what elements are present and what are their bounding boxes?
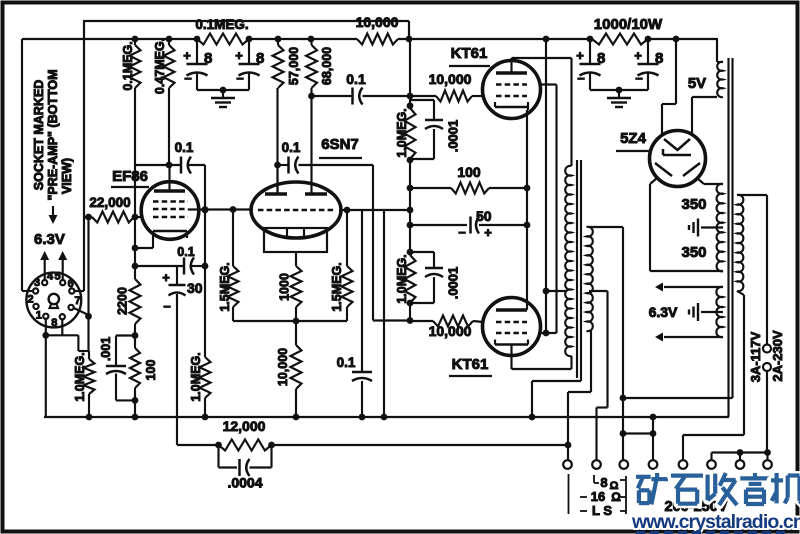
svg-text:16: 16 xyxy=(591,489,605,504)
junction dots top bus xyxy=(132,36,680,43)
svg-text:−: − xyxy=(236,71,244,86)
label KT61 (upper) xyxy=(449,45,490,66)
svg-text:3: 3 xyxy=(34,277,40,289)
wire line A down to socket pin6 xyxy=(74,217,84,291)
resistor 100 xyxy=(410,164,527,194)
svg-text:1.0MEG.: 1.0MEG. xyxy=(73,352,87,401)
wire 5Z4 filament right xyxy=(692,97,717,135)
label 200-250V xyxy=(665,499,728,515)
ground (filter right) xyxy=(607,90,631,107)
wire EF86 anode node y=165 xyxy=(135,162,205,169)
svg-text:4: 4 xyxy=(47,271,54,283)
label 350 (upper) xyxy=(681,196,706,213)
svg-text:1.0MEG.: 1.0MEG. xyxy=(189,352,203,401)
wire mains terminal harness xyxy=(712,449,771,460)
svg-text:0.47MEG.: 0.47MEG. xyxy=(153,38,167,94)
wire cathode bypass node xyxy=(132,248,209,269)
label 3A-117V xyxy=(748,331,763,382)
wire 6SN7 grid right xyxy=(339,207,413,214)
svg-text:100: 100 xyxy=(457,164,481,180)
power transformer core xyxy=(623,58,733,417)
output and mains terminals xyxy=(563,460,772,469)
svg-text:350: 350 xyxy=(681,244,706,261)
wire 8uF pair (left) to ground xyxy=(197,87,249,94)
svg-text:50: 50 xyxy=(476,208,492,224)
capacitor 50 electrolytic xyxy=(410,208,527,240)
label 6.3V xyxy=(34,231,65,248)
wire cathode rail y=321 xyxy=(233,318,347,325)
resistor 0.1MEG horizontal xyxy=(195,17,249,45)
wire link T3-T4 xyxy=(624,432,653,434)
svg-text:6: 6 xyxy=(68,278,74,290)
label 8 ohm xyxy=(600,475,618,492)
svg-text:+: + xyxy=(576,48,584,63)
resistor 1.0MEG (input grid leak) xyxy=(73,351,95,417)
wire 0.1MEG drop xyxy=(134,88,136,248)
svg-text:8: 8 xyxy=(256,50,264,67)
svg-text:22,000: 22,000 xyxy=(89,195,130,210)
resistor 0.47MEG vertical xyxy=(153,38,175,165)
wire socket pin7 to grid node xyxy=(74,214,92,351)
tube KT61 (upper) xyxy=(483,61,541,119)
svg-text:1.0MEG.: 1.0MEG. xyxy=(395,254,409,303)
svg-text:8: 8 xyxy=(51,317,57,329)
wire socket pin8 rail xyxy=(46,319,89,351)
resistor 1.5MEG (left) xyxy=(218,210,239,321)
resistor 0.1MEG vertical xyxy=(121,39,141,91)
svg-text:1.5MEG.: 1.5MEG. xyxy=(218,262,232,311)
label 350 (lower) xyxy=(681,244,706,261)
capacitor 0.1 (EF86 plate coupling) xyxy=(175,140,194,174)
resistor 10,000 (upper KT61 grid) xyxy=(410,71,483,102)
wire top bus B+ y=39 xyxy=(22,38,717,62)
svg-text:"PRE-AMP" (BOTTOM: "PRE-AMP" (BOTTOM xyxy=(46,69,60,200)
resistor 2200 xyxy=(116,266,141,404)
tube 6SN7 xyxy=(251,165,341,252)
label 2A-230V xyxy=(770,330,785,382)
output transformer secondary winding xyxy=(587,227,593,331)
tube socket (bottom view) xyxy=(26,273,81,328)
wire 5Z4 anode left xyxy=(650,178,723,271)
svg-text:2: 2 xyxy=(28,294,34,306)
svg-text:1: 1 xyxy=(36,310,42,322)
svg-text:8: 8 xyxy=(597,50,605,67)
wire upper KT61 anode xyxy=(512,58,572,166)
resistor 10,000 vertical xyxy=(276,321,302,417)
svg-text:SOCKET MARKED: SOCKET MARKED xyxy=(32,80,46,190)
svg-text:0.1MEG.: 0.1MEG. xyxy=(121,41,135,90)
capacitor 0.1 (to 6SN7 grid) xyxy=(274,140,373,174)
wire upper KT61 screen xyxy=(540,83,557,85)
svg-text:1000/10W: 1000/10W xyxy=(594,16,663,33)
svg-text:−: − xyxy=(163,299,171,314)
wire left drop to socket pin3 xyxy=(22,39,32,291)
capacitor 30 electrolytic xyxy=(162,266,203,314)
arrow heater pin b xyxy=(58,251,67,280)
wire 5Z4 anode right xyxy=(697,178,723,184)
svg-text:+: + xyxy=(235,48,243,63)
svg-text:−: − xyxy=(458,225,466,240)
label 16 ohm xyxy=(591,489,621,504)
label EF86 xyxy=(111,168,149,187)
capacitor 0.1 (cathode) xyxy=(177,245,194,275)
svg-text:0.1: 0.1 xyxy=(337,355,356,370)
resistor 1.5MEG (right) xyxy=(330,210,353,321)
svg-text:7: 7 xyxy=(74,295,80,307)
svg-text:0.1: 0.1 xyxy=(175,140,194,155)
svg-text:2A-230V: 2A-230V xyxy=(770,330,785,382)
svg-text:10,000: 10,000 xyxy=(356,14,399,30)
svg-text:.0001: .0001 xyxy=(446,120,461,153)
svg-text:10,000: 10,000 xyxy=(276,348,290,386)
HT centre tap to chassis xyxy=(689,219,723,237)
speaker tap bracket xyxy=(569,474,627,514)
tube KT61 (lower) xyxy=(483,298,541,356)
resistor 10,000 (lower KT61 grid) xyxy=(410,316,483,340)
wire EF86 screen to 6SN7 grid xyxy=(188,206,253,213)
wire mains tap 230V xyxy=(737,195,771,453)
resistor 57,000 xyxy=(273,39,302,194)
6.3V centre tap to chassis xyxy=(689,303,723,321)
resistor 1000 xyxy=(278,252,302,321)
capacitor 8uF (d) xyxy=(634,39,663,90)
svg-text:+: + xyxy=(183,48,191,63)
label KT61 (lower) xyxy=(449,356,492,376)
wire splitter chain x=410 xyxy=(407,39,414,321)
wire terminal T4 to ground bus xyxy=(650,417,657,460)
wire 50uF ground return xyxy=(381,210,388,420)
svg-text:Ω: Ω xyxy=(611,490,621,504)
wire lower KT61 screen xyxy=(539,332,557,334)
svg-text:+: + xyxy=(162,270,170,285)
svg-text:100: 100 xyxy=(144,360,158,381)
capacitor .001 xyxy=(99,336,135,401)
power transformer mains winding xyxy=(737,195,743,291)
svg-text:EF86: EF86 xyxy=(112,168,148,185)
svg-text:0.1MEG.: 0.1MEG. xyxy=(195,17,248,32)
wire upper KT61 cathode xyxy=(524,107,531,310)
svg-text:5V: 5V xyxy=(688,75,706,92)
wire secondary tap to terminal xyxy=(589,291,608,460)
arrow heater pin a xyxy=(40,251,49,280)
svg-text:0.1: 0.1 xyxy=(346,71,366,87)
wire 8uF pair (right) to ground xyxy=(590,87,648,94)
ground (filter left) xyxy=(211,90,235,107)
svg-text:10,000: 10,000 xyxy=(429,323,472,339)
svg-text:L S: L S xyxy=(592,503,612,518)
resistor 1.0MEG (6SN7 grid leak) xyxy=(189,165,211,417)
label 6SN7 xyxy=(319,136,362,158)
wire feedback from cathode xyxy=(176,298,178,445)
label 5V xyxy=(688,75,706,92)
svg-text:1.0MEG.: 1.0MEG. xyxy=(395,108,409,157)
wire ground bus xyxy=(44,414,729,421)
svg-text:2200: 2200 xyxy=(116,287,130,315)
wire secondary bottom to terminal xyxy=(565,331,591,460)
resistor 1000/10W xyxy=(592,16,663,45)
svg-text:0.1: 0.1 xyxy=(282,140,301,155)
svg-text:+: + xyxy=(484,225,492,240)
capacitor 8uF (b) xyxy=(235,39,264,90)
svg-text:−: − xyxy=(184,71,192,86)
capacitor .0001 (lower) xyxy=(410,252,461,303)
capacitor .0001 (upper) xyxy=(407,100,461,159)
svg-text:5: 5 xyxy=(54,271,60,283)
svg-text:8: 8 xyxy=(600,475,607,490)
wire mains bottom 117V xyxy=(683,291,744,460)
resistor 12,000 xyxy=(219,418,272,451)
wire secondary top to terminal xyxy=(589,227,626,461)
output transformer primary winding xyxy=(565,166,571,356)
resistor 10,000 top xyxy=(356,14,399,45)
svg-text:8: 8 xyxy=(204,50,212,67)
svg-text:6.3V: 6.3V xyxy=(649,304,678,320)
power transformer 6.3V winding xyxy=(716,287,723,337)
tube EF86 xyxy=(141,165,199,239)
svg-text:1000: 1000 xyxy=(278,273,292,301)
socket pin numbers xyxy=(28,271,81,330)
resistor 68,000 xyxy=(306,39,334,194)
label 6.3V winding xyxy=(649,304,678,320)
svg-text:57,000: 57,000 xyxy=(287,47,301,85)
svg-text:.0004: .0004 xyxy=(227,475,262,491)
wire EF86 cathode xyxy=(132,238,153,251)
svg-text:8: 8 xyxy=(655,50,663,67)
label LS xyxy=(592,503,612,518)
label SOCKET MARKED (rotated) xyxy=(32,69,74,200)
svg-text:+: + xyxy=(634,48,642,63)
output transformer core xyxy=(577,160,581,381)
wire screens tie line xyxy=(543,85,557,337)
svg-text:.001: .001 xyxy=(99,337,113,361)
resistor 100 (left) xyxy=(130,348,158,417)
capacitor 8uF (a) xyxy=(183,39,212,90)
svg-text:5Z4: 5Z4 xyxy=(620,130,647,147)
svg-text:10,000: 10,000 xyxy=(429,71,472,87)
wire 6.3V top arrow xyxy=(655,283,723,292)
svg-text:6SN7: 6SN7 xyxy=(321,136,359,153)
svg-text:68,000: 68,000 xyxy=(320,47,334,85)
svg-text:350: 350 xyxy=(681,196,706,213)
svg-text:3A-117V: 3A-117V xyxy=(748,331,763,382)
wire 6.3V bottom arrow xyxy=(655,333,723,342)
svg-text:12,000: 12,000 xyxy=(223,418,266,434)
resistor 1.0MEG (upper) xyxy=(395,108,416,159)
wire lower KT61 anode xyxy=(512,345,572,370)
wire B+ to OPT centre tap and screens xyxy=(543,39,567,333)
svg-text:6.3V: 6.3V xyxy=(34,231,65,248)
svg-text:KT61: KT61 xyxy=(451,45,488,62)
wire feedback line xyxy=(177,442,568,449)
svg-text:0.1: 0.1 xyxy=(177,245,194,259)
arrow down to socket xyxy=(49,206,58,224)
svg-text:30: 30 xyxy=(187,280,203,296)
watermark crystalradio xyxy=(631,473,800,534)
capacitor 8uF (c) xyxy=(576,39,605,90)
capacitor 0.1 (driver coupling upper) xyxy=(312,71,411,105)
power transformer HT winding 350-0-350 xyxy=(717,184,723,271)
tube 5Z4 xyxy=(650,131,706,187)
label 5Z4 xyxy=(616,130,650,151)
svg-text:VIEW): VIEW) xyxy=(60,158,74,194)
wire OPT core to ground xyxy=(532,381,581,417)
wire coupling to lower KT61 grid xyxy=(373,165,413,324)
wire 5Z4 filament left xyxy=(662,39,676,136)
svg-text:www.crystalradio.cn: www.crystalradio.cn xyxy=(631,511,800,533)
svg-text:−: − xyxy=(577,71,585,86)
svg-text:.0001: .0001 xyxy=(446,267,461,300)
capacitor .0004 xyxy=(219,445,272,491)
wire line A y=21 xyxy=(84,20,409,217)
power transformer 5V winding xyxy=(717,62,723,97)
svg-text:1.5MEG.: 1.5MEG. xyxy=(330,262,344,311)
svg-text:−: − xyxy=(635,71,643,86)
resistor 1.0MEG (lower) xyxy=(395,254,416,303)
svg-text:KT61: KT61 xyxy=(452,356,489,373)
capacitor 0.1 (6SN7 grid return) xyxy=(337,210,372,417)
wire socket pin1 to ground bus xyxy=(42,319,49,417)
resistor 22,000 xyxy=(84,195,142,223)
